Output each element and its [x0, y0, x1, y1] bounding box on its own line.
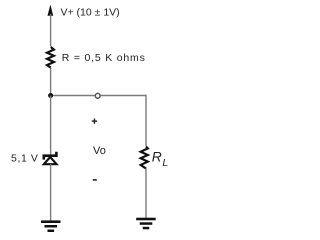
resistor RL — [141, 147, 148, 169]
svg-text:V+ (10 ± 1V): V+ (10 ± 1V) — [61, 7, 120, 19]
wire: resistor RL to right ground — [145, 169, 147, 219]
wire: node A down to zener cathode — [50, 96, 52, 156]
svg-text:R = 0,5 K ohms: R = 0,5 K ohms — [62, 52, 146, 64]
minus polarity mark — [93, 179, 97, 181]
output terminal (open circle) — [95, 93, 100, 98]
wire: arrow to resistor R — [50, 14, 52, 47]
ground (left) — [41, 220, 61, 232]
plus polarity mark — [92, 119, 97, 124]
svg-text:Vo: Vo — [93, 145, 106, 157]
svg-text:R: R — [152, 148, 162, 164]
wire: horizontal to resistor RL — [145, 95, 147, 147]
svg-text:L: L — [162, 157, 168, 169]
wire: node A to right branch (horizontal) — [51, 95, 146, 97]
ground (right) — [136, 218, 156, 230]
power supply arrow V+ — [48, 5, 54, 16]
resistor R — [47, 47, 54, 68]
svg-text:5,1 V: 5,1 V — [11, 152, 39, 164]
wire: resistor R to node A — [50, 68, 52, 96]
zener diode D1 cathode bar — [44, 152, 57, 160]
zener diode D1 anode triangle — [44, 157, 57, 164]
wire: zener anode to left ground — [50, 164, 52, 221]
junction node A — [48, 93, 53, 98]
